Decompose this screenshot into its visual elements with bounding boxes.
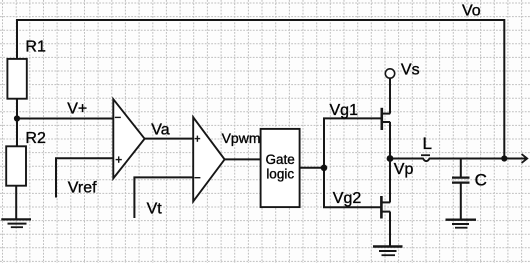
svg-text:Vpwm: Vpwm xyxy=(222,130,261,146)
svg-text:Vref: Vref xyxy=(68,180,97,197)
svg-text:Vo: Vo xyxy=(462,2,481,19)
svg-text:L: L xyxy=(423,134,432,153)
svg-text:logic: logic xyxy=(266,167,294,182)
svg-text:Vt: Vt xyxy=(147,201,163,218)
svg-text:Gate: Gate xyxy=(266,152,295,167)
svg-text:Vp: Vp xyxy=(394,161,414,178)
svg-text:V+: V+ xyxy=(67,101,87,118)
svg-text:R2: R2 xyxy=(25,130,46,147)
svg-text:C: C xyxy=(475,171,487,190)
svg-text:Vg1: Vg1 xyxy=(330,102,359,119)
svg-text:R1: R1 xyxy=(25,39,46,56)
svg-text:Vs: Vs xyxy=(401,61,420,78)
svg-text:Va: Va xyxy=(151,121,169,138)
svg-text:Vg2: Vg2 xyxy=(333,190,362,207)
